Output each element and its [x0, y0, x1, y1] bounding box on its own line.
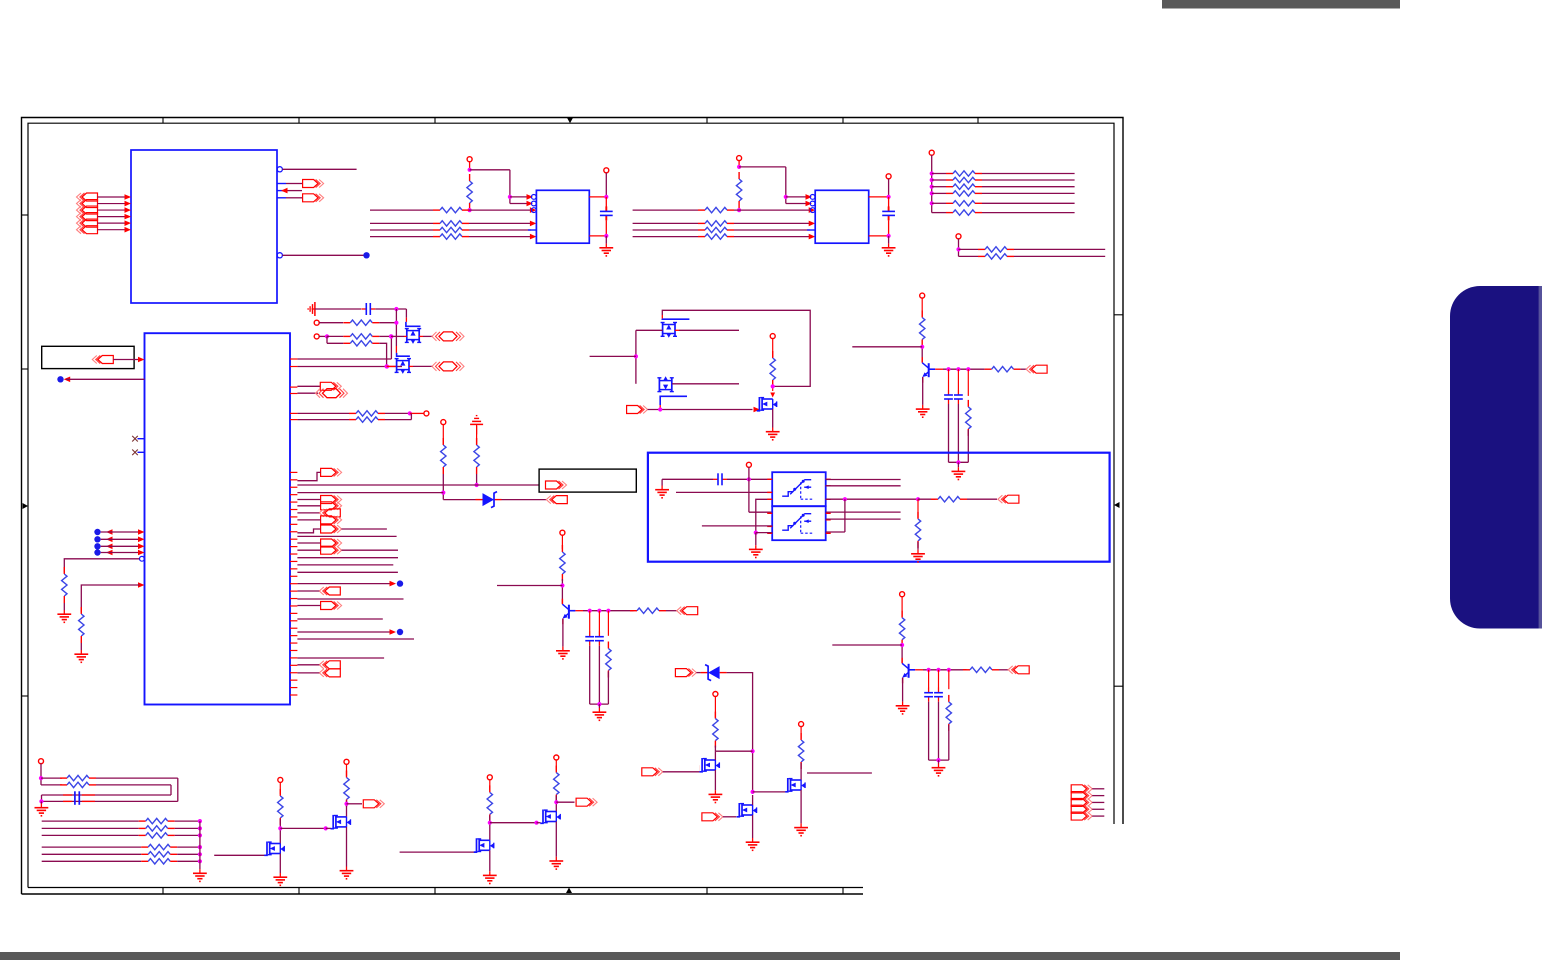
- U3 input wires with series resistors: [633, 207, 816, 239]
- resistor R-U3 pullup: [736, 172, 741, 212]
- wire row 619: [297, 618, 382, 620]
- wire row 557: [297, 557, 398, 559]
- AC coupling cap C-byp: [308, 302, 406, 316]
- resistor R-c with node: [487, 775, 536, 841]
- opto2 input wiring with ground: [702, 526, 772, 558]
- resistor R-dd with flag: [554, 755, 598, 812]
- navy rounded side tab: [1450, 286, 1542, 629]
- RC feedback loop: [35, 759, 178, 816]
- MOSFET Q7 with gate flag: [642, 751, 723, 802]
- MOSFET Q11: [324, 815, 354, 879]
- resistor R-a with node: [278, 777, 326, 843]
- resistor R-o3 with output flag: [923, 666, 1029, 674]
- transistor Q4: [916, 357, 943, 417]
- MOSFET Q10: [214, 842, 287, 886]
- wire row 639: [297, 638, 414, 640]
- flag row 506: [297, 502, 341, 510]
- MOSFET Q3 with ground: [757, 397, 780, 440]
- U1 pin wire with node dot: [277, 252, 370, 258]
- wire left rail: [590, 330, 638, 384]
- U2 input wires with series resistors: [370, 207, 536, 239]
- resistor R-U2 pullup: [467, 174, 472, 212]
- MOSFET Q2: [385, 359, 465, 374]
- flag row 591: [297, 587, 340, 595]
- resistor R-d2: [470, 416, 483, 488]
- IC U1: [131, 150, 277, 303]
- flag row 665: [297, 661, 340, 669]
- resistor R-bb with flag: [344, 759, 385, 817]
- flag row 605: [297, 602, 341, 610]
- flag row 543: [297, 539, 341, 547]
- resistor pair RN2: [956, 234, 1105, 259]
- wire loop top: [662, 310, 810, 386]
- flag row 673: [297, 669, 340, 677]
- wire row 565: [297, 564, 393, 566]
- bottom gray bar: [0, 952, 1400, 960]
- optocoupler U5A: [767, 472, 831, 506]
- U4 pin wire with node: [57, 376, 144, 382]
- wire row 599: [297, 598, 403, 600]
- IC U2: [528, 190, 589, 243]
- resistor R-g2 and R-g3: [314, 334, 404, 367]
- opto1 input RC and power rail: [655, 462, 772, 512]
- flag row 529 with wire: [297, 525, 387, 533]
- U2 pullup power elbow: [467, 157, 533, 207]
- zener D2 with flag and rail: [675, 665, 754, 794]
- opto1 output wires: [826, 480, 920, 502]
- U1 left input flags: [77, 193, 132, 234]
- resistor R-g1: [314, 320, 398, 325]
- U4 no-connect pins: [132, 436, 144, 455]
- filter C3 C4 R to ground: [585, 611, 611, 721]
- U1 right flags: [277, 180, 324, 202]
- wire net SCL: [297, 334, 393, 359]
- resistor R-iso2 with output flag: [918, 495, 1019, 503]
- resistor array RN1: [932, 171, 1075, 216]
- U4 left bus pins with node dots: [94, 529, 144, 556]
- termination resistor bank: [42, 818, 207, 881]
- resistor R-iso to ground: [911, 499, 925, 562]
- MOSFET Q14: [657, 376, 739, 409]
- top gray bar: [1162, 0, 1400, 9]
- flag row 513: [297, 509, 340, 517]
- resistor R-o2 with output flag: [583, 607, 698, 615]
- wire opto1 pin2: [676, 491, 772, 493]
- optocoupler U5B: [767, 506, 831, 540]
- wire to Q2 gate: [396, 309, 410, 356]
- connector flag stack: [1071, 785, 1104, 820]
- resistor R-o1 with output flag: [943, 365, 1047, 373]
- filter C5 C6 R to ground: [924, 670, 951, 776]
- resistor R-e with node: [713, 692, 753, 752]
- MOSFET Q1: [404, 329, 464, 344]
- resistor R-q3: [770, 334, 775, 398]
- wire net B: [297, 492, 443, 494]
- wire net A: [297, 484, 539, 486]
- flag row 520: [297, 516, 341, 524]
- MOSFET Q8 with gate flag: [702, 795, 760, 850]
- MOSFET Q13: [636, 315, 739, 338]
- wire row 632 with node dot: [297, 629, 403, 635]
- filter C1 C2 R to ground: [944, 369, 971, 479]
- resistor R-d1: [441, 420, 446, 500]
- IC U4: [145, 333, 291, 704]
- U4 flag pair GA: [297, 382, 347, 397]
- wire row 658: [297, 657, 384, 659]
- zener D1 with flag: [443, 492, 567, 508]
- U3 pullup power elbow: [737, 156, 812, 207]
- MOSFET Q12: [400, 838, 497, 883]
- blue isolation box: [648, 453, 1110, 562]
- wire row 572: [297, 571, 398, 573]
- flag row 472 with elbow: [297, 468, 341, 480]
- IC U3: [807, 190, 869, 243]
- black box2 with flag: [539, 469, 636, 492]
- resistor R-b3 and base wire: [832, 592, 905, 663]
- U4 pulldown resistor R-left2: [74, 582, 144, 662]
- U4 pulldown resistor R-left1: [57, 556, 144, 622]
- wire opto1 pin3 elbow: [756, 499, 773, 532]
- U2 decoupling cap and ground: [589, 168, 613, 256]
- U3 decoupling cap and ground: [869, 174, 896, 256]
- gate drive input flag: [627, 406, 760, 414]
- wire to Q1 gate: [406, 309, 421, 326]
- wire row 584 with node dot: [297, 580, 403, 586]
- U4 right pin stubs: [290, 359, 297, 695]
- wire row 536: [297, 535, 396, 537]
- flag row 550 with wire: [297, 546, 398, 554]
- transistor Q6: [896, 658, 923, 714]
- flag row 499: [297, 496, 341, 504]
- border zone tick marks: [22, 118, 1124, 895]
- U1 pin RST wire: [277, 167, 356, 172]
- sheet border frame: [22, 118, 1124, 895]
- U4 series resistor pair to test point: [297, 411, 429, 423]
- transistor Q5: [556, 599, 583, 659]
- resistor R-b1 and base wire: [852, 293, 925, 362]
- resistor R-b2 and base wire: [497, 530, 565, 604]
- MOSFET Q9 with pullup: [753, 722, 872, 836]
- MOSFET Q15: [534, 810, 563, 870]
- label box with input flag: [42, 346, 145, 368]
- wire net SDA: [297, 364, 402, 368]
- opto2 output wires: [826, 499, 901, 532]
- pull-up rail: [929, 150, 934, 212]
